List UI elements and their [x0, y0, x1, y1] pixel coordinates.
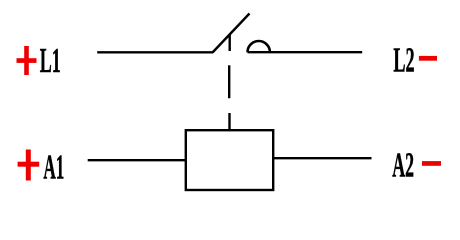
wire: coil to A2	[273, 157, 371, 159]
wire: switch contact to L2	[248, 51, 363, 53]
svg-text:L2: L2	[393, 41, 414, 80]
relay coil K1 (box)	[186, 130, 273, 190]
switch SW contact blade (open)	[213, 14, 250, 53]
switch fixed contact half-circle	[248, 41, 270, 52]
actuator link dash 2	[228, 65, 230, 98]
svg-text:L1: L1	[40, 41, 61, 80]
actuator link dash 1 (tick from blade)	[228, 34, 230, 51]
wire: A1 to coil	[88, 159, 186, 161]
polarity minus (top right, red)	[419, 56, 437, 61]
actuator link dash 3	[228, 113, 230, 131]
wire: L1 to switch pivot	[97, 51, 213, 53]
polarity plus (top left, red)	[17, 46, 37, 75]
svg-text:A2: A2	[392, 146, 414, 185]
polarity plus (bottom left, red)	[18, 150, 40, 181]
polarity minus (bottom right, red)	[422, 161, 441, 166]
svg-text:A1: A1	[43, 148, 64, 187]
